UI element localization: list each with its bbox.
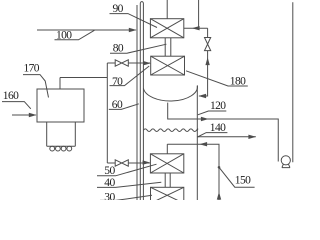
label 170 leader xyxy=(23,75,49,98)
arrow feed 160 into furnace xyxy=(29,113,37,117)
wire left header pipe xyxy=(106,63,108,163)
arrow return line leftward xyxy=(199,142,207,146)
wire valve V3 line to E3 xyxy=(107,162,150,164)
label 160 leader xyxy=(2,102,31,109)
label 70 leader xyxy=(110,66,150,86)
wire right bypass pipe upper xyxy=(207,28,209,37)
node liquid level wavy line xyxy=(143,129,197,132)
node tower right wall xyxy=(196,86,198,200)
arrow outlet line rightward xyxy=(248,135,256,139)
heat exchanger E1 box xyxy=(150,19,183,38)
svg-text:50: 50 xyxy=(104,165,115,177)
svg-text:40: 40 xyxy=(104,177,115,189)
arrow return riser upward xyxy=(217,192,221,200)
label 50 leader xyxy=(97,164,157,176)
furnace box 170 xyxy=(37,89,84,122)
wire connector pipes E3 to E4 xyxy=(165,173,170,187)
wire furnace top pipe xyxy=(60,78,107,90)
svg-text:70: 70 xyxy=(112,76,123,88)
valve V2 right vertical bowtie xyxy=(205,38,211,51)
wire overhead vent pipe xyxy=(198,0,200,28)
valve V1 left horizontal bowtie xyxy=(115,60,128,66)
label 90 leader xyxy=(110,14,158,28)
wire feed pipe left vertical xyxy=(136,5,138,200)
heat exchanger E4 box (clipped at bottom) xyxy=(151,187,184,203)
label 150 leader xyxy=(219,167,255,187)
wire riser pipe into E3 xyxy=(166,144,168,154)
arrow feed 100 into tower xyxy=(129,28,137,32)
heater coil below furnace xyxy=(47,122,76,146)
svg-text:170: 170 xyxy=(24,63,40,75)
wire feed line 100 xyxy=(37,29,136,31)
node leader dot 150 xyxy=(218,166,221,169)
arrow V1 line into E2 xyxy=(143,61,151,65)
svg-text:120: 120 xyxy=(210,100,226,112)
svg-text:100: 100 xyxy=(56,29,72,41)
valve V3 left horizontal bowtie xyxy=(115,160,128,166)
wire bowl drain pipe to pump xyxy=(168,103,279,162)
label 180 leader xyxy=(186,71,248,86)
label 140 leader xyxy=(198,133,228,137)
wire valve V1 line to E2 xyxy=(107,62,150,64)
wire top inlet pipe into E1 xyxy=(166,0,168,19)
wire return line 150 xyxy=(167,144,219,200)
heat exchanger E2 box xyxy=(151,56,185,75)
svg-text:180: 180 xyxy=(230,76,246,88)
label 80 leader xyxy=(110,44,166,53)
label 120 leader xyxy=(198,111,227,115)
svg-text:160: 160 xyxy=(3,90,19,102)
label 40 leader xyxy=(97,182,161,187)
wire E1 right overhead line xyxy=(184,27,208,29)
node tower bowl bottom head xyxy=(143,85,197,101)
label 30 leader xyxy=(100,195,152,200)
label 100 leader xyxy=(55,30,95,40)
heat exchanger E3 box xyxy=(150,154,183,173)
svg-text:80: 80 xyxy=(113,43,124,55)
arrow bypass entry leftward xyxy=(198,94,206,98)
arrow V3 line into E3 xyxy=(143,160,151,164)
svg-text:140: 140 xyxy=(210,122,226,134)
svg-text:60: 60 xyxy=(112,99,123,111)
pump P1 circle xyxy=(281,156,290,165)
arrow drain line rightward xyxy=(201,117,209,121)
svg-text:30: 30 xyxy=(104,191,115,200)
node internal tube top cap xyxy=(140,2,143,4)
arrow overhead line leftward xyxy=(192,26,200,30)
wire feed line 160 xyxy=(12,114,36,116)
svg-text:150: 150 xyxy=(235,175,251,187)
node internal tube right line xyxy=(142,4,144,201)
wire product outlet line xyxy=(197,136,255,138)
node internal tube left line xyxy=(139,4,141,201)
wire right bypass pipe lower xyxy=(199,51,208,96)
label 60 leader xyxy=(109,104,139,110)
wire connector pipes E1 to E2 xyxy=(165,38,171,56)
wire pump discharge riser xyxy=(292,2,294,162)
arrow bypass pipe upward xyxy=(205,57,209,65)
svg-text:90: 90 xyxy=(113,3,124,15)
pump P1 base xyxy=(282,164,290,168)
